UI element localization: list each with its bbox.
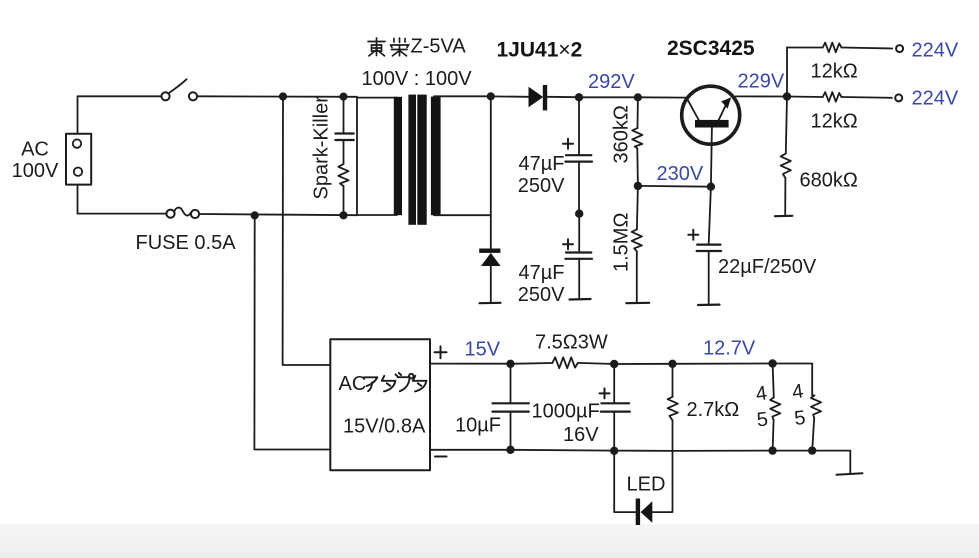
svg-text:680kΩ: 680kΩ [800, 170, 858, 192]
fuse FUSE 0.5A [166, 210, 174, 218]
resistor R5 680k [786, 97, 787, 154]
svg-text:16V: 16V [563, 424, 599, 446]
wire rail to transistor [638, 96, 687, 98]
capacitor C5 1000uF 16V [613, 364, 615, 403]
plus sign C1 [563, 139, 573, 149]
wire 229V up [786, 48, 788, 97]
capacitor C3 22uF/250V [709, 187, 711, 245]
svg-text:1000µF: 1000µF [532, 401, 600, 423]
svg-text:5: 5 [793, 407, 806, 430]
svg-text:5: 5 [756, 408, 769, 431]
svg-text:2.7kΩ: 2.7kΩ [687, 399, 740, 421]
node 292V [576, 94, 583, 101]
svg-text:7.5Ω3W: 7.5Ω3W [535, 331, 608, 353]
plus sign C2 [563, 239, 573, 249]
node top-rail / adapter tap [280, 93, 286, 99]
svg-text:15V/0.8A: 15V/0.8A [343, 416, 426, 438]
capacitor spark-killer C [343, 97, 345, 133]
wire diode to 292V node [547, 96, 579, 98]
svg-text:FUSE 0.5A: FUSE 0.5A [136, 232, 237, 254]
node spark-killer bottom [340, 212, 346, 218]
wire minus rail [430, 450, 850, 451]
transformer T1 primary winding [357, 98, 397, 215]
resistor spark-killer R [343, 140, 345, 164]
plus sign C3 [688, 230, 698, 240]
wire base down [711, 128, 712, 187]
wire LED loop left [614, 451, 636, 512]
svg-text:1JU41×2: 1JU41×2 [497, 38, 583, 61]
resistor R1 360k [637, 97, 639, 128]
svg-text:AC: AC [21, 139, 49, 161]
wire +15V rail [430, 363, 511, 365]
node heater 2 bottom [809, 447, 816, 454]
transformer T1 secondary winding [431, 97, 441, 216]
AC plug J1 [66, 134, 91, 185]
transistor Q1 2SC3425 [682, 86, 740, 144]
svg-text:12kΩ: 12kΩ [811, 61, 858, 83]
wire corner to heater resistor 2 [773, 364, 813, 396]
wire top rail left [78, 96, 162, 134]
switch SW [161, 92, 169, 100]
capacitor C4 10uF [510, 364, 512, 403]
svg-text:10µF: 10µF [455, 415, 501, 437]
terminal 224V upper [896, 45, 903, 52]
svg-text:100V: 100V [12, 160, 59, 182]
node 360k top [635, 94, 641, 100]
wire LED loop right [652, 451, 672, 512]
resistor R9 heater 45 right [811, 395, 821, 418]
ground bar R5 [775, 215, 792, 218]
svg-text:LED: LED [627, 474, 666, 496]
resistor R3 12k upper [787, 47, 823, 49]
terminal 224V lower [895, 94, 902, 101]
node 10uF bottom [507, 447, 514, 454]
ground bar C2 [570, 298, 591, 301]
wire adapter neutral drop [254, 215, 330, 449]
diode D1 1JU41 [529, 87, 544, 107]
node bottom-rail / adapter tap [252, 212, 258, 218]
wire 230V [638, 185, 711, 188]
node 230V left [635, 183, 642, 190]
svg-text:100V : 100V: 100V : 100V [362, 68, 473, 90]
svg-text:1.5MΩ: 1.5MΩ [611, 213, 633, 272]
svg-text:15V: 15V [465, 339, 501, 361]
AC adapter box [330, 339, 430, 470]
resistor R4 12k lower [787, 96, 823, 99]
svg-text:250V: 250V [518, 175, 565, 197]
diode D2 1JU41 lower [479, 249, 500, 253]
wire top rail to transformer [197, 95, 357, 98]
wire adapter live drop [283, 97, 331, 366]
node secondary top [488, 93, 494, 99]
resistor R8 heater 45 left [773, 364, 774, 398]
wire doubler drop [490, 96, 492, 248]
node 1000uF bottom [611, 448, 618, 455]
svg-text:Z-5VA: Z-5VA [411, 36, 467, 58]
wire plug to bottom rail [78, 185, 167, 214]
capacitor C2 47uF lower [578, 214, 580, 253]
svg-text:47µF: 47µF [519, 262, 565, 284]
svg-text:224V: 224V [912, 40, 959, 62]
ground right [849, 451, 851, 474]
svg-text:292V: 292V [588, 71, 635, 93]
svg-text:Spark-Killer: Spark-Killer [311, 96, 333, 200]
minus sign adapter [435, 456, 447, 458]
node 1000uF top [611, 361, 618, 368]
svg-text:230V: 230V [657, 163, 704, 185]
wire secondary top to diode [491, 95, 529, 97]
svg-text:2SC3425: 2SC3425 [667, 37, 755, 60]
wire bottom rail to transformer [199, 214, 357, 215]
svg-text:12.7V: 12.7V [703, 338, 756, 360]
svg-text:229V: 229V [738, 71, 785, 93]
svg-text:360kΩ: 360kΩ [611, 105, 633, 163]
capacitor C1 47uF upper [578, 97, 580, 155]
svg-text:250V: 250V [518, 284, 565, 306]
transformer T1 core [408, 95, 416, 225]
resistor R2 1.5M [637, 186, 638, 229]
svg-text:224V: 224V [912, 88, 959, 110]
node 229V [784, 93, 791, 100]
resistor R7 2.7k [672, 364, 674, 397]
node spark-killer top [340, 93, 346, 99]
node cap junction on secondary return [576, 210, 583, 217]
ground bar D2 [480, 302, 501, 305]
resistor R6 7.5ohm 3W [552, 357, 578, 368]
ground bar R2 [626, 302, 649, 305]
svg-text:12kΩ: 12kΩ [811, 111, 858, 133]
svg-text:AC: AC [339, 373, 367, 395]
LED D3 [636, 499, 640, 526]
svg-text:47µF: 47µF [519, 153, 565, 175]
wire emitter to 229V node [736, 95, 787, 97]
node 10uF top [507, 361, 514, 368]
node 2.7k top [669, 361, 676, 368]
node heater 1 bottom [769, 447, 776, 454]
plus sign adapter [435, 346, 447, 358]
label transformer 東栄 Z-5VA [368, 38, 409, 56]
svg-text:22µF/250V: 22µF/250V [718, 256, 817, 278]
ground bar C3 [698, 304, 720, 307]
node base 230V [708, 183, 715, 190]
plus sign C5 [600, 388, 610, 398]
node heater resistor 1 top [769, 360, 776, 367]
wire 292V rail [579, 96, 638, 98]
